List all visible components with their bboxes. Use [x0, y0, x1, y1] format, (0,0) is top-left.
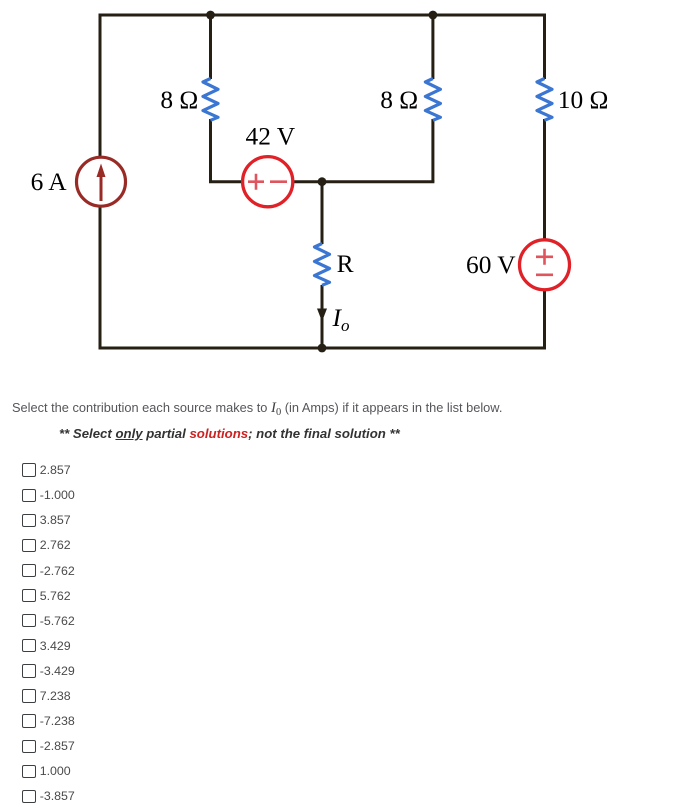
wire branch R1 lower	[209, 119, 243, 183]
svg-text:42 V: 42 V	[246, 123, 296, 151]
wire top rail	[100, 14, 545, 17]
wire right side lower	[543, 290, 546, 349]
arrow Io on center branch	[317, 309, 327, 322]
wire branch R1 upper	[209, 15, 212, 79]
wire center branch lower	[321, 285, 324, 348]
circuit schematic	[0, 0, 676, 396]
svg-text:8 Ω: 8 Ω	[380, 86, 418, 114]
wire middle rail	[293, 180, 435, 183]
svg-text:8 Ω: 8 Ω	[160, 86, 198, 114]
wire center branch upper	[321, 182, 324, 244]
svg-text:Io: Io	[332, 304, 350, 335]
resistor 10ohm zigzag	[537, 79, 552, 121]
question text	[12, 400, 502, 417]
voltage source 42V minus sign	[270, 180, 287, 183]
resistor 8ohm left zigzag	[203, 79, 218, 121]
wire right side upper	[543, 14, 546, 80]
wire left side upper	[99, 14, 102, 158]
svg-text:10 Ω: 10 Ω	[558, 86, 609, 114]
resistor 8ohm right zigzag	[425, 79, 440, 121]
voltage source 42V plus sign	[248, 174, 264, 190]
current source 6A arrow	[97, 164, 106, 202]
answer checkbox list	[22, 458, 75, 809]
node junction top-right	[429, 11, 438, 20]
node junction middle	[318, 177, 327, 186]
current source 6A circle	[77, 157, 126, 206]
wire left side lower	[99, 206, 102, 348]
voltage source 60V circle	[520, 240, 570, 290]
wire bottom rail	[99, 347, 547, 350]
svg-text:60 V: 60 V	[466, 251, 516, 279]
voltage source 60V plus sign	[536, 249, 553, 265]
wire branch R2	[431, 15, 434, 182]
svg-text:6 A: 6 A	[31, 168, 68, 196]
voltage source 60V minus sign	[536, 273, 553, 276]
wire right side middle	[543, 119, 546, 240]
node junction bottom	[318, 344, 327, 353]
instruction line	[59, 426, 400, 441]
resistor R zigzag	[315, 244, 330, 286]
svg-text:R: R	[337, 250, 354, 278]
node junction top-left	[206, 11, 215, 20]
voltage source 42V circle	[243, 157, 293, 207]
